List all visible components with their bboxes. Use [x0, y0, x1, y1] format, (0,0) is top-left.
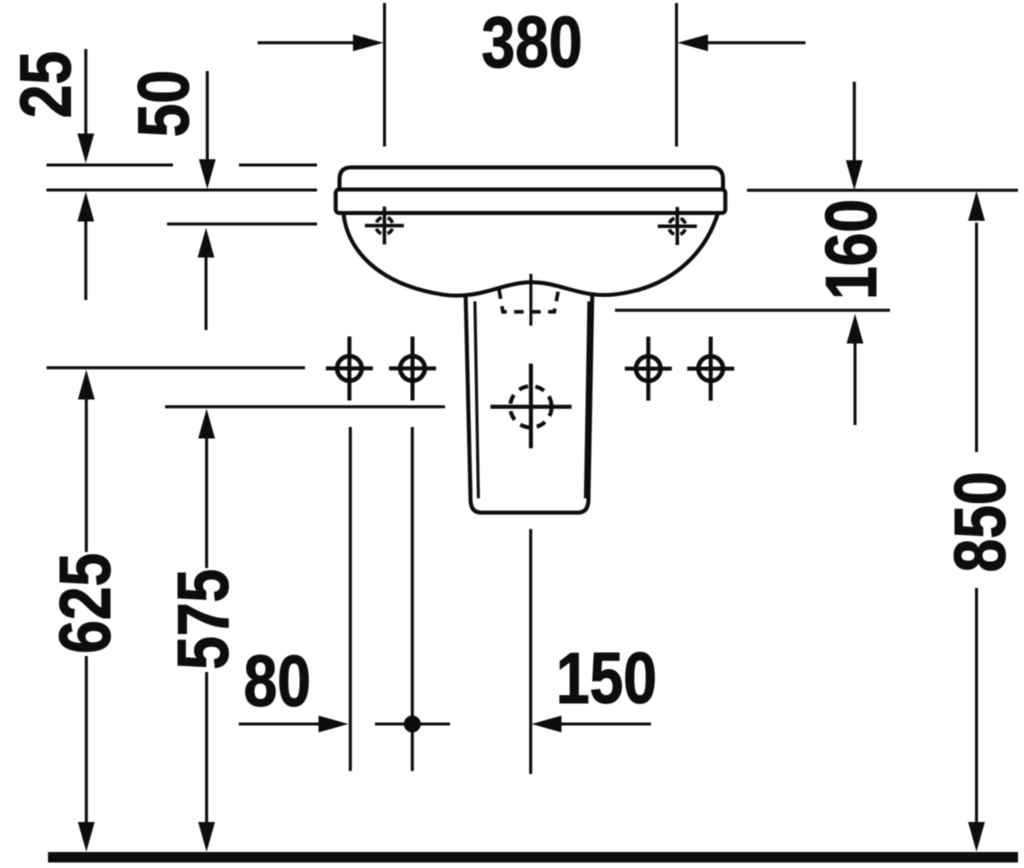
svg-text:625: 625 — [46, 553, 126, 654]
dim 380 extension line right — [675, 3, 678, 147]
supply crosshair left 1 — [326, 337, 373, 401]
svg-text:25: 25 — [6, 51, 86, 118]
basin bowl outline — [344, 214, 718, 296]
shared dimension dot — [404, 716, 421, 733]
dim 160 upper arrowhead — [846, 160, 863, 190]
trap cover inner line right — [585, 301, 589, 498]
dim 850 dimension line — [975, 223, 978, 823]
dim 160 lower reference line (y310) — [615, 309, 890, 312]
drain height reference line (y407) — [165, 405, 445, 408]
trap cover outline — [466, 294, 593, 513]
dim 150 arrowhead — [532, 716, 562, 733]
dim 625 upper arrowhead — [78, 370, 95, 400]
dim 160 lower arrowhead — [847, 314, 864, 344]
dim 160 lower arrow stem — [854, 344, 857, 426]
svg-text:850: 850 — [941, 471, 1021, 572]
dim 575 upper arrowhead — [198, 409, 215, 439]
svg-text:80: 80 — [244, 642, 311, 722]
svg-text:150: 150 — [556, 639, 657, 719]
rim reference line right (y190) — [747, 189, 1018, 192]
dim 50 lower arrowhead — [198, 228, 215, 258]
extension line from right supply hole (x412) — [411, 427, 414, 771]
drain crosshair — [490, 364, 571, 449]
dim 50 upper arrowhead — [199, 159, 216, 189]
dim 575 lower arrowhead — [198, 822, 215, 852]
extension line from left supply hole (x350) — [349, 427, 352, 771]
dim 150 arrow line — [560, 723, 651, 726]
dim 380 arrowhead right — [678, 34, 709, 51]
fixing hole crosshair left — [365, 207, 404, 245]
trap cover inner line left — [475, 301, 479, 498]
svg-text:575: 575 — [164, 569, 244, 670]
dim 575 dimension line — [205, 439, 208, 824]
svg-text:380: 380 — [482, 3, 583, 83]
dim 625 dimension line — [85, 400, 88, 824]
dim 25 lower arrowhead — [77, 192, 94, 222]
dim 850 upper arrowhead — [968, 191, 985, 221]
dim 380 arrow line left — [258, 41, 356, 44]
supply height reference line (y368) — [47, 366, 306, 369]
svg-text:160: 160 — [812, 199, 892, 300]
dim 25 upper arrow stem — [84, 49, 87, 135]
drain dashed circle — [510, 386, 551, 427]
dim 80 arrow line — [239, 723, 320, 726]
dim 380 arrowhead left — [353, 34, 384, 51]
drain centerline upper segment — [529, 274, 532, 326]
supply crosshair right 1 — [625, 337, 672, 401]
basin upper rim (back edge) — [340, 167, 724, 190]
fixing hole crosshair right — [658, 207, 697, 245]
svg-text:50: 50 — [125, 70, 205, 137]
hidden overflow outline (dashed) — [499, 289, 559, 311]
dim 50 upper arrow stem — [206, 71, 209, 160]
dim 25 lower arrow stem — [84, 222, 87, 301]
dim 80 arrowhead — [319, 716, 349, 733]
dim 380 extension line left — [383, 3, 386, 147]
supply crosshair right 2 — [687, 337, 734, 401]
floor line — [48, 852, 1018, 863]
drain centerline lower extension — [529, 529, 532, 774]
dim 380 arrow line right — [706, 41, 806, 44]
dim 850 lower arrowhead — [968, 822, 985, 852]
dim 50 reference line bottom (y224) — [167, 223, 317, 226]
dim 625 lower arrowhead — [78, 822, 95, 852]
dim 160 upper arrow stem — [853, 82, 856, 161]
line through dot — [375, 723, 450, 726]
dim 25 reference line bottom / rim line (y190) — [47, 189, 318, 192]
supply crosshair left 2 — [389, 337, 436, 401]
dim 25 upper arrowhead — [77, 134, 94, 164]
dim 25 reference line top (y165) — [47, 164, 318, 167]
basin rim band — [336, 190, 726, 214]
dim 50 lower arrow stem — [205, 258, 208, 331]
